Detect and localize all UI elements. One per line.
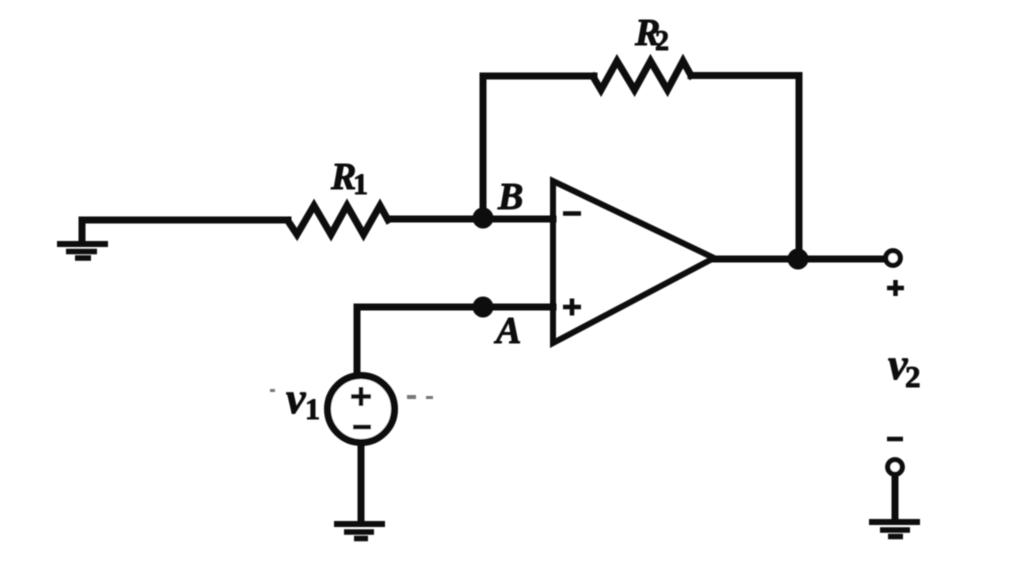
svg-text:2: 2 (905, 359, 921, 394)
svg-text:B: B (497, 176, 523, 218)
svg-text:1: 1 (305, 393, 320, 426)
svg-text:1: 1 (353, 168, 368, 201)
svg-text:2: 2 (655, 26, 669, 57)
svg-text:v: v (286, 374, 306, 423)
svg-text:A: A (494, 310, 521, 352)
